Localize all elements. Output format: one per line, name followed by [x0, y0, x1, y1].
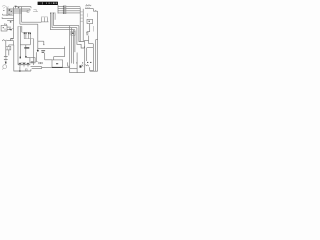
wire vertical x13.6 lower [13, 41, 15, 45]
bottom tie [90, 70, 98, 72]
inline connectors [63, 6, 66, 14]
comp specks [86, 32, 88, 33]
wire vertical x20.3 long with arrow terminal [19, 26, 21, 57]
top right harness: 4 lines [57, 5, 59, 14]
plug bottom tie [24, 38, 34, 40]
right lower verticals [96, 40, 98, 72]
wire horizontal y22.2 [22, 21, 42, 23]
key switch box [1, 25, 7, 31]
staircase B [77, 28, 84, 48]
handlebar squiggle top right [86, 5, 92, 7]
wire vertical x18 (long) [17, 26, 19, 64]
relay top right [87, 19, 93, 23]
junction dot [10, 21, 11, 22]
wire horizontal y20.6 [7, 20, 13, 22]
wire vertical x88.7 upper [88, 36, 90, 41]
wire horizontal y40.6 [6, 40, 13, 42]
faint stub [87, 13, 89, 17]
faint stub right of lines [33, 9, 38, 11]
wire vertical x37.8 [37, 24, 39, 50]
ignition switch zigzag [2, 40, 6, 41]
wire vertical x44.7 [44, 53, 46, 60]
bracket merge [31, 66, 42, 68]
small box on line [25, 69, 27, 71]
battery junction dot [5, 62, 7, 63]
wire horizontal y44.8 [20, 45, 30, 47]
wire vertical x7 [6, 7, 8, 16]
blob [25, 56, 27, 58]
hook up right end [30, 69, 32, 71]
wire vertical x21.5 [21, 7, 23, 23]
speck [9, 9, 10, 10]
feed wires [54, 46, 65, 60]
solenoid dark block [24, 47, 29, 48]
cross mark [9, 28, 10, 30]
wire corner x13.9 (down from fuse tee) [14, 45, 31, 71]
wire vertical x25.8 lower [25, 49, 27, 57]
faint top tie [18, 25, 22, 27]
wire vertical x97.6 (right edge bus) [97, 11, 99, 71]
key switch stubs [7, 26, 11, 28]
fuse cluster box [6, 47, 11, 50]
specks [95, 10, 96, 11]
mini connector box [27, 11, 29, 13]
dots [87, 62, 88, 63]
wire bus y27.6 [52, 13, 77, 27]
bottom right cluster [63, 67, 70, 69]
wire horizontal y59.8 [45, 59, 52, 61]
wire horizontal y18.5 with hook [2, 17, 14, 18]
wire bus y29.7 [51, 13, 75, 30]
connector marks [9, 10, 10, 11]
wire vertical x19.8 [19, 9, 21, 24]
wire bus y25.6 [54, 13, 79, 25]
bottom tie [70, 72, 85, 74]
starter circle [3, 65, 7, 69]
bottom center box [52, 60, 63, 68]
ladder bottom corner to S-route [83, 40, 93, 61]
battery plates [4, 56, 8, 58]
engine squiggle top-left (faint) [2, 6, 9, 9]
spark plug pair 2 [28, 33, 29, 35]
tick [43, 44, 45, 46]
stub verticals with tops [42, 17, 48, 22]
relay box [30, 58, 35, 63]
spare drop wire [54, 13, 56, 20]
wire to relay box [27, 57, 30, 59]
rungs [80, 12, 83, 21]
squiggle lower right [85, 64, 89, 66]
dark comp [80, 65, 82, 67]
wire vertical x13.5 (long left bus) [13, 7, 15, 39]
small comp pair [39, 62, 41, 64]
X mark [82, 65, 84, 67]
wire vertical x33.7 (long) [33, 39, 35, 65]
starter tail [2, 68, 3, 69]
dots above key box [4, 24, 5, 25]
wire horizontal y11 [7, 10, 28, 12]
wire horizontal y9 [7, 9, 30, 11]
tick [35, 61, 39, 63]
under-bar drop caps [50, 12, 55, 14]
connect to bus [12, 27, 14, 29]
wire horizontal y6.6 [16, 7, 31, 9]
small L step [68, 62, 70, 66]
long horizontal y48.6 [38, 48, 65, 50]
wire vertical x8.8 [8, 50, 10, 56]
wire vertical x73.7 [73, 30, 75, 64]
connector marks mid-left [8, 14, 9, 15]
wire horizontal y41.2 [38, 41, 44, 45]
junction dot [10, 29, 11, 30]
dots [76, 62, 77, 63]
junction dot [37, 50, 39, 52]
wire vertical x30.4 [29, 39, 31, 45]
staircase A [79, 26, 85, 42]
speck [3, 10, 4, 11]
spark plug pair 1 [22, 31, 30, 33]
staircase C [74, 30, 76, 52]
left jog at y38.5 [10, 39, 13, 41]
wire vertical x84.7 [84, 42, 86, 73]
component label dark specks [41, 49, 45, 52]
wire vertical x71.7 [71, 28, 73, 64]
wire vertical x69.7 [69, 26, 71, 73]
wire corner to x8.8 [9, 45, 14, 47]
wire from relay down [87, 24, 90, 32]
bottom left comp row [18, 64, 30, 66]
wire vertical x5.8 [5, 41, 7, 56]
title block label [38, 2, 58, 5]
junction dot [19, 70, 21, 72]
wire horizontal y15 with hook [3, 14, 14, 15]
wire vertical x19.9 [19, 67, 21, 71]
continuation [76, 53, 78, 73]
mid comp box [71, 31, 75, 35]
faint vertical x93.4 [92, 26, 94, 32]
wire vertical x21.7 [21, 26, 23, 32]
ladder pair [79, 7, 81, 41]
wire horizontal y24.2 [20, 23, 38, 25]
wire horizontal y13 [7, 12, 22, 14]
wire vertical x36.3 [35, 52, 37, 62]
